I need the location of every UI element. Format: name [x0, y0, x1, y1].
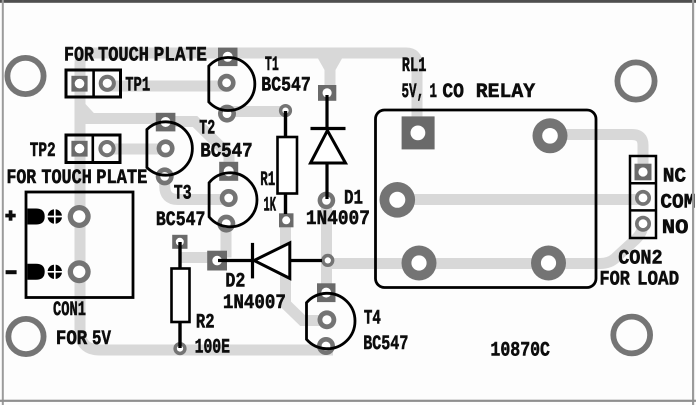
svg-text:CON2: CON2 [618, 248, 663, 271]
resistor R2 leads [178, 242, 181, 269]
svg-text:LOAD: LOAD [637, 269, 679, 292]
pad TP1 pin1 [71, 76, 87, 92]
PADS: dark squares [71, 48, 651, 302]
TRACES [80, 53, 643, 350]
svg-text:1: 1 [430, 81, 438, 104]
svg-text:10870C: 10870C [490, 339, 550, 362]
pad D2 cathode [321, 254, 334, 267]
diode D1 symbol [325, 95, 328, 129]
relay RL1 box [376, 110, 597, 288]
pad T1 pin1 [218, 48, 238, 67]
svg-text:D1: D1 [344, 187, 363, 210]
pad TP2 pin2 [98, 140, 115, 157]
resistor R1 body [278, 137, 298, 194]
svg-text:T3: T3 [174, 183, 192, 206]
pad RL1 COM [380, 182, 416, 218]
svg-text:RELAY: RELAY [476, 81, 536, 104]
pad CON1 plus [68, 205, 91, 228]
transistor T3 outline [209, 173, 257, 227]
connector CON1 pin2 screw symbol [47, 264, 64, 281]
svg-text:100E: 100E [195, 336, 230, 359]
wire T1 emitter to R1 top [227, 106, 285, 117]
wire fillet at D1 stub [318, 59, 342, 71]
pad D2 anode [207, 251, 227, 271]
connector CON2 box [630, 156, 656, 238]
pad R2 bottom [173, 342, 186, 355]
label FOR LOAD [600, 269, 680, 292]
pad T2 pin1 [156, 113, 176, 132]
label FOR 5V [56, 328, 112, 351]
mounting hole top-right [617, 62, 654, 99]
pad CON1 minus [68, 260, 91, 283]
svg-text:CON1: CON1 [53, 299, 86, 322]
pad T2 emitter [156, 167, 174, 185]
wire TP2 to T2 base [107, 144, 164, 155]
wire R1 bottom to T4 base [286, 222, 326, 321]
pad T4 emitter [317, 337, 335, 355]
connector TP1 box [66, 70, 121, 97]
pad D1 anode [318, 192, 336, 210]
svg-text:BC547: BC547 [200, 140, 253, 163]
pad CON2 COM [635, 190, 651, 206]
svg-text:FOR: FOR [56, 328, 88, 351]
pad T4 base [318, 310, 337, 329]
pad T3 base [220, 189, 238, 207]
svg-text:BC547: BC547 [156, 209, 206, 232]
svg-text:NC: NC [663, 166, 686, 189]
wire T2 top pad to T3 top pad [166, 122, 229, 170]
connector CON1 pin1 wire-entry blob [28, 209, 45, 225]
pad R2 top [172, 235, 187, 249]
svg-text:NO: NO [662, 217, 689, 240]
wire T3 emitter down [221, 221, 232, 258]
pad holes for squares (white) [75, 52, 648, 298]
wire relay NC contact to CON2 NC [550, 135, 643, 173]
svg-text:FOR: FOR [600, 269, 631, 292]
label CON1 minus [6, 270, 17, 274]
svg-text:PLATE: PLATE [96, 167, 147, 190]
diode D2 symbol [218, 259, 253, 262]
svg-text:CO: CO [442, 81, 464, 104]
svg-text:T1: T1 [265, 54, 279, 77]
PADS: donuts [68, 74, 651, 355]
svg-text:TP2: TP2 [30, 140, 56, 163]
wire main net: top band / left vertical / bottom band [80, 53, 417, 350]
svg-text:T2: T2 [199, 118, 215, 141]
wire D1 cathode to D2 cathode to T4 collector [321, 200, 332, 292]
mounting hole bottom-left [8, 319, 43, 354]
wire R2 to D2 anode-side [179, 252, 221, 263]
pad RL1 NO contact [531, 246, 566, 281]
pad T3 pin1 [219, 162, 238, 181]
mounting hole top-left [7, 58, 43, 94]
pad D1 cathode [318, 85, 336, 101]
connector CON1 box [26, 192, 133, 298]
connector TP2 box [66, 135, 120, 163]
wire stub to D1 top pad [325, 56, 336, 93]
svg-text:BC547: BC547 [261, 75, 311, 98]
pad RL1 coil square [402, 116, 435, 149]
mounting hole bottom-right [613, 317, 650, 354]
pad T4 pin1 [317, 283, 336, 302]
connector CON1 pin2 wire-entry blob [28, 264, 45, 280]
label 5V 1 CO RELAY [402, 81, 536, 104]
transistor T4 outline [307, 293, 355, 348]
svg-text:RL1: RL1 [402, 55, 427, 78]
wire node to relay coil and CON2 NO [328, 224, 643, 264]
label FOR TOUCH PLATE (top) [64, 45, 207, 68]
label FOR TOUCH PLATE (lower) [7, 167, 148, 190]
svg-text:TOUCH: TOUCH [41, 167, 91, 190]
label CON1 plus [5, 210, 15, 220]
resistor R2 body [172, 269, 190, 323]
pad T1 emitter [218, 105, 236, 123]
svg-text:5V: 5V [92, 328, 111, 351]
pad R1 bottom [279, 213, 294, 227]
svg-text:1N4007: 1N4007 [306, 208, 370, 231]
pad R1 top [279, 104, 292, 117]
wire fillet at T2 branch [86, 104, 105, 124]
svg-text:5V,: 5V, [402, 81, 425, 104]
pad TP2 pin1 [71, 141, 87, 157]
transistor T2 outline [147, 122, 192, 175]
svg-text:D2: D2 [225, 271, 245, 294]
SILKSCREEN OUTLINES [26, 57, 656, 348]
svg-text:TOUCH: TOUCH [98, 45, 149, 68]
svg-text:R1: R1 [260, 169, 275, 192]
resistor R1 leads [284, 111, 287, 137]
wire branch to T2 top pad [80, 113, 162, 124]
svg-text:TP1: TP1 [125, 75, 150, 98]
pad T3 emitter [217, 215, 235, 233]
svg-text:FOR: FOR [64, 45, 95, 68]
svg-text:FOR: FOR [7, 167, 37, 190]
svg-text:PLATE: PLATE [154, 45, 207, 68]
pad T2 base [157, 139, 175, 157]
svg-text:COM: COM [660, 191, 695, 214]
pad T1 base [218, 74, 236, 92]
wire relay COM to CON2 COM [397, 194, 643, 205]
pad CON2 NO [635, 216, 651, 232]
pad CON2 NC [635, 164, 652, 181]
wire T2 emitter to T3 base [165, 176, 227, 200]
wire TP1 to T1 base [107, 81, 227, 92]
svg-text:T4: T4 [364, 308, 381, 331]
svg-text:1K: 1K [264, 195, 277, 218]
svg-text:R2: R2 [196, 311, 215, 334]
transistor T1 outline [209, 57, 255, 110]
connector CON1 pin1 screw symbol [47, 208, 64, 225]
pad RL1 coil2 [402, 246, 437, 281]
svg-text:BC547: BC547 [363, 333, 408, 356]
pad RL1 NC contact [533, 118, 568, 153]
svg-text:1N4007: 1N4007 [223, 292, 286, 315]
pad TP1 pin2 [99, 75, 116, 92]
